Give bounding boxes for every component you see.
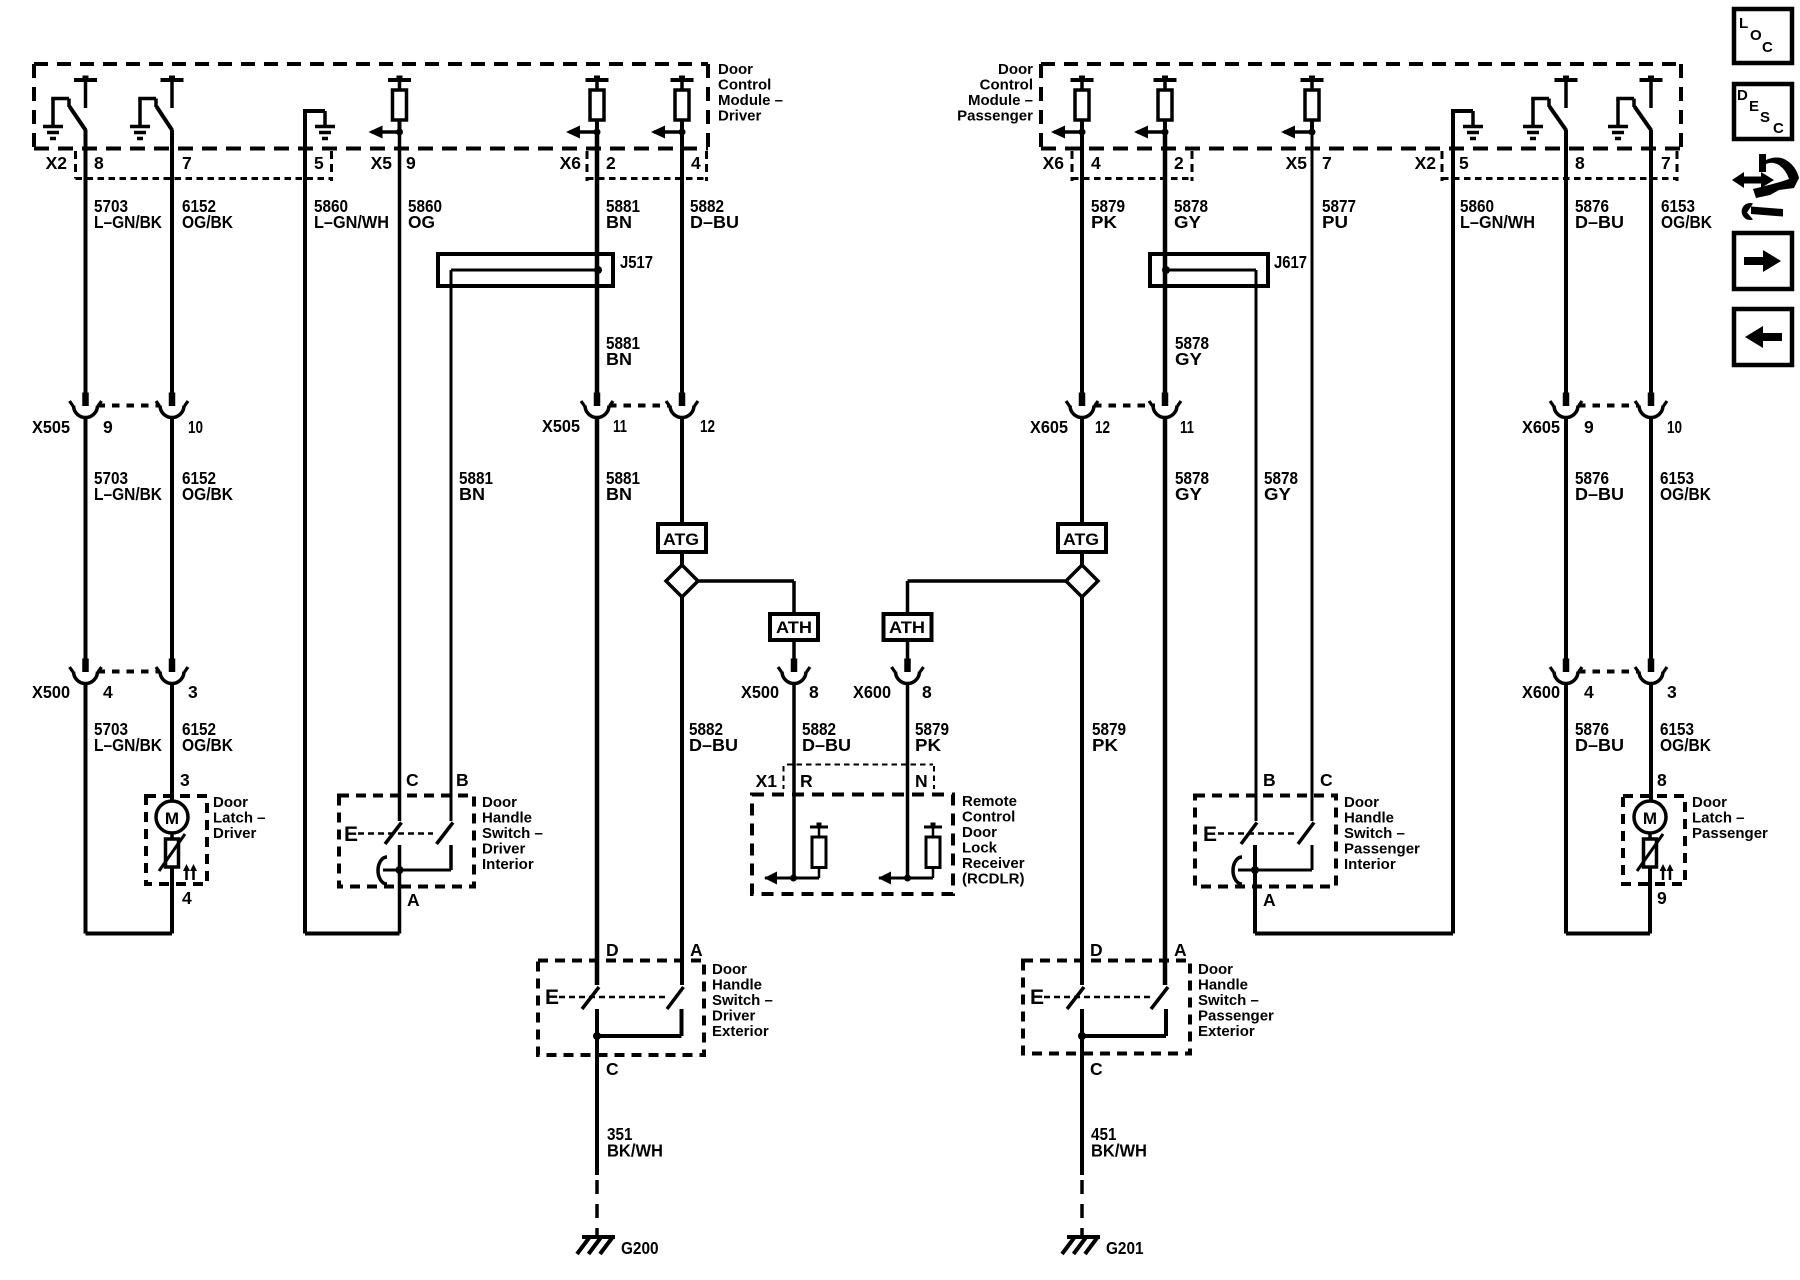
pin C label interior passenger (1320, 770, 1333, 790)
pin 8 label (94, 153, 104, 173)
pin 12 label X505 (700, 416, 715, 436)
svg-text:X6: X6 (1043, 153, 1065, 173)
splice symbol ATH (driver) (770, 614, 818, 640)
pin D label exterior passenger (1090, 940, 1103, 960)
ground symbol on wire X2-5 (passenger) (1451, 111, 1483, 149)
svg-text:9: 9 (1657, 888, 1667, 908)
box Door Handle Switch - Driver Exterior (538, 961, 704, 1056)
switch E actuator exterior passenger (1030, 986, 1150, 1009)
svg-text:8: 8 (94, 153, 104, 173)
switch blade D exterior driver (582, 987, 599, 1009)
svg-text:2: 2 (1174, 153, 1184, 173)
wire label 5876 D-BU top (1575, 196, 1624, 232)
svg-text:G200: G200 (621, 1238, 659, 1258)
svg-text:Receiver: Receiver (962, 855, 1025, 872)
svg-text:8: 8 (1657, 770, 1667, 790)
svg-text:3: 3 (188, 682, 198, 702)
svg-text:X605: X605 (1522, 417, 1560, 437)
wire label 5878 GY low (1175, 468, 1209, 504)
wire label 5881 BN low (606, 468, 640, 504)
pin 11 label X505 (613, 416, 627, 436)
svg-text:N: N (915, 771, 928, 791)
connector X605 row (passenger 12/11) (1094, 404, 1155, 408)
wire label 5860 L-GN/WH (passenger) (1460, 196, 1535, 232)
pin 9 label latch passenger (1657, 888, 1667, 908)
wire 351 BK/WH exterior driver C to ground (595, 1036, 599, 1235)
wire 5860 L-GN/WH (X2-5 to interior switch A) (305, 149, 400, 934)
pin label X1 (756, 771, 778, 791)
icon DESC box (1734, 84, 1792, 139)
switch to ground U2 pin X2-8 (1523, 76, 1578, 139)
connector X6 bracket (passenger) (1072, 151, 1192, 181)
svg-text:Door: Door (718, 61, 753, 78)
pin 7 label X5 (passenger) (1322, 153, 1332, 173)
svg-text:A: A (1263, 890, 1276, 910)
svg-text:ATG: ATG (1063, 530, 1099, 549)
svg-text:9: 9 (103, 417, 113, 437)
connector X1 row RCDLR (784, 765, 935, 790)
svg-text:Switch –: Switch – (1198, 992, 1259, 1009)
pin label X2 (driver) (46, 153, 68, 173)
svg-text:BN: BN (606, 349, 632, 369)
junction diamond (driver 5882) (666, 565, 698, 597)
label Door Latch - Passenger (1692, 794, 1768, 842)
wire interior driver A to 5860 (398, 845, 402, 934)
svg-text:BK/WH: BK/WH (607, 1141, 663, 1161)
wire label 6152 OG/BK top (182, 196, 233, 232)
svg-text:8: 8 (1575, 153, 1585, 173)
svg-text:Exterior: Exterior (712, 1023, 769, 1040)
svg-text:C: C (1090, 1059, 1103, 1079)
RCDLR input R internals (764, 823, 828, 885)
wire 451 BK/WH exterior passenger C to ground (1080, 1036, 1084, 1235)
pin 2 label (passenger) (1174, 153, 1184, 173)
label G201 (1106, 1238, 1144, 1258)
label X600 (right) (1522, 682, 1560, 702)
label J617 (1274, 252, 1307, 272)
wire label 6152 OG/BK low (182, 719, 233, 755)
splice symbol ATH (passenger side) (884, 614, 932, 640)
wire 5860 OG (X5-9 to interior switch C) (398, 132, 402, 821)
svg-text:4: 4 (182, 888, 192, 908)
wire label 6152 OG/BK mid (182, 468, 233, 504)
svg-text:L–GN/BK: L–GN/BK (94, 735, 162, 755)
label X500 (RCDLR R) (741, 682, 779, 702)
label X500 (left) (32, 682, 70, 702)
wire label 6153 OG/BK top (1661, 196, 1712, 232)
switch blade A exterior passenger (1151, 987, 1168, 1009)
pin 5 label (314, 153, 324, 173)
pin A label interior driver (407, 890, 420, 910)
svg-text:X5: X5 (371, 153, 393, 173)
svg-text:E: E (1203, 823, 1217, 846)
svg-text:X2: X2 (1415, 153, 1437, 173)
label Door Control Module - Driver (718, 61, 783, 125)
svg-text:11: 11 (613, 416, 627, 436)
wire label 5703 L-GN/BK mid (94, 468, 162, 504)
svg-text:4: 4 (1584, 682, 1594, 702)
box Door Handle Switch - Passenger Exterior (1023, 961, 1190, 1054)
svg-text:12: 12 (700, 416, 715, 436)
wire label 351 BK/WH (607, 1124, 663, 1161)
splice J617 (1150, 254, 1268, 286)
svg-text:2: 2 (606, 153, 616, 173)
svg-text:Driver: Driver (482, 841, 526, 858)
svg-text:PK: PK (915, 735, 941, 755)
wire label 5882 D-BU (to RCDLR) (802, 719, 851, 755)
resistor input U1 pin X6-4 (651, 76, 694, 139)
svg-text:Switch –: Switch – (712, 992, 773, 1009)
svg-text:Door: Door (482, 794, 517, 811)
pin A label exterior driver (690, 940, 703, 960)
ground G200 (577, 1237, 615, 1254)
svg-text:O: O (1750, 27, 1762, 44)
svg-text:Control: Control (718, 77, 771, 94)
svg-text:D: D (1090, 940, 1103, 960)
pin 7 label (182, 153, 192, 173)
wire label 6153 OG/BK low (1660, 719, 1711, 755)
pin 4 label X500 (103, 682, 113, 702)
svg-text:B: B (456, 770, 469, 790)
svg-text:Passenger: Passenger (957, 108, 1033, 125)
label X600 (RCDLR N) (853, 682, 891, 702)
pin 4 label (passenger) (1091, 153, 1101, 173)
svg-text:9: 9 (1584, 417, 1594, 437)
box Door Latch - Driver (146, 796, 207, 884)
wire 6153 OG/BK (X2-7 to door latch pin 8) (1635, 130, 1667, 802)
svg-text:ATH: ATH (776, 618, 812, 637)
box Remote Control Door Lock Receiver RCDLR (752, 795, 953, 895)
svg-text:Driver: Driver (712, 1008, 756, 1025)
svg-text:5: 5 (1459, 153, 1469, 173)
switch E actuator exterior driver (545, 986, 665, 1009)
pin 5 label (passenger) (1459, 153, 1469, 173)
svg-text:Module –: Module – (718, 92, 783, 109)
wire label 5879 PK low (1092, 719, 1126, 755)
label G200 (621, 1238, 659, 1258)
svg-text:(RCDLR): (RCDLR) (962, 871, 1024, 888)
svg-text:L–GN/WH: L–GN/WH (314, 212, 389, 232)
resistor input U2 pin X6-4 (1051, 76, 1094, 139)
switch to ground U1 pin X2-7 (130, 76, 184, 139)
icon arrow left box (1734, 309, 1792, 365)
wire label 5882 D-BU top (690, 196, 739, 232)
svg-text:C: C (606, 1059, 619, 1079)
connector X6 bracket (driver) (587, 151, 707, 181)
pin A label exterior passenger (1174, 940, 1187, 960)
svg-text:GY: GY (1174, 212, 1201, 232)
svg-text:OG/BK: OG/BK (1660, 484, 1711, 504)
svg-text:E: E (1030, 986, 1044, 1009)
wire diamond to ATH (driver) (698, 581, 794, 614)
svg-text:Handle: Handle (482, 810, 532, 827)
svg-text:Passenger: Passenger (1198, 1008, 1274, 1025)
icon hand with arrow and wrench (1732, 154, 1799, 220)
pin B label interior passenger (1263, 770, 1276, 790)
switch blade B interior driver (437, 823, 454, 845)
svg-text:Door: Door (1198, 961, 1233, 978)
pin N label (915, 771, 928, 791)
exterior passenger posts and junction (1078, 1009, 1166, 1040)
svg-text:BN: BN (606, 212, 632, 232)
wire label 5878 GY mid (1175, 333, 1209, 369)
svg-text:D–BU: D–BU (690, 212, 739, 232)
wire label 5881 BN top (606, 196, 640, 232)
wire label 5881 BN mid (606, 333, 640, 369)
svg-text:Interior: Interior (1344, 856, 1396, 873)
svg-text:PK: PK (1092, 735, 1118, 755)
pin B label interior driver (456, 770, 469, 790)
svg-text:Control: Control (980, 77, 1033, 94)
svg-text:C: C (406, 770, 419, 790)
pin 9 label X605 (1584, 417, 1594, 437)
wire label 5876 D-BU mid (1575, 468, 1624, 504)
svg-text:7: 7 (1322, 153, 1332, 173)
switch blade D exterior passenger (1067, 987, 1084, 1009)
svg-text:Door: Door (1692, 794, 1727, 811)
wire label 5878 GY branch (1264, 468, 1298, 504)
wire label 5879 PK top (1091, 196, 1125, 232)
label Door Latch - Driver (213, 794, 266, 842)
pin 9 label (406, 153, 416, 173)
svg-text:M: M (1643, 809, 1657, 828)
svg-text:C: C (1762, 39, 1773, 56)
svg-text:10: 10 (1667, 417, 1682, 437)
svg-text:Door: Door (962, 824, 997, 841)
svg-text:X505: X505 (32, 417, 70, 437)
wire label 451 BK/WH (1091, 1124, 1147, 1161)
switch blade C interior driver (385, 823, 402, 845)
svg-text:C: C (1320, 770, 1333, 790)
wire label 5881 BN branch (459, 468, 493, 504)
svg-text:A: A (407, 890, 420, 910)
wire 5878 GY (X6-2 to exterior switch A) (1149, 132, 1181, 985)
label Door Handle Switch - Passenger Exterior (1198, 961, 1274, 1040)
pin label X5 (passenger) (1286, 153, 1308, 173)
svg-text:D–BU: D–BU (1575, 484, 1624, 504)
pin 10 label X505 (188, 417, 203, 437)
svg-text:Latch –: Latch – (213, 810, 266, 827)
module box Door Control Module - Driver (34, 64, 708, 149)
svg-text:J517: J517 (620, 252, 653, 272)
svg-text:A: A (1174, 940, 1187, 960)
svg-text:X6: X6 (560, 153, 582, 173)
box Door Latch - Passenger (1623, 796, 1685, 884)
svg-text:Latch –: Latch – (1692, 810, 1745, 827)
switch blade A exterior driver (667, 987, 684, 1009)
wire label 5876 D-BU low (1575, 719, 1624, 755)
label X505 (center) (542, 416, 580, 436)
svg-text:R: R (800, 771, 813, 791)
pin R label (800, 771, 813, 791)
svg-text:12: 12 (1095, 417, 1110, 437)
wire label 5877 PU (1322, 196, 1356, 232)
switch E actuator interior passenger (1203, 823, 1294, 846)
wire 5860 L-GN/WH (X2-5 to interior switch A passenger) (1255, 149, 1453, 934)
svg-text:X5: X5 (1286, 153, 1308, 173)
svg-text:Handle: Handle (712, 977, 762, 994)
svg-text:3: 3 (1667, 682, 1677, 702)
pin 3 label X600 (1667, 682, 1677, 702)
wire label 5703 L-GN/BK top (94, 196, 162, 232)
svg-text:4: 4 (103, 682, 113, 702)
svg-text:7: 7 (1661, 153, 1671, 173)
thermistor door latch passenger (1637, 833, 1663, 871)
svg-text:D–BU: D–BU (802, 735, 851, 755)
svg-text:Handle: Handle (1344, 810, 1394, 827)
icon LOC box (1734, 9, 1792, 63)
svg-text:Control: Control (962, 809, 1015, 826)
svg-text:Lock: Lock (962, 840, 998, 857)
svg-text:GY: GY (1264, 484, 1291, 504)
svg-text:OG/BK: OG/BK (182, 212, 233, 232)
svg-text:OG: OG (408, 212, 435, 232)
icon arrow right box (1734, 233, 1792, 289)
motor M door latch driver (156, 801, 188, 833)
module box Door Control Module - Passenger (1041, 64, 1681, 149)
pin D label exterior driver (606, 940, 619, 960)
svg-text:5: 5 (314, 153, 324, 173)
connector X500 row (driver 4/3) (98, 670, 161, 674)
svg-text:D: D (606, 940, 619, 960)
thermistor door latch driver (159, 833, 185, 871)
pin label X2 (passenger) (1415, 153, 1437, 173)
svg-text:L: L (1739, 15, 1748, 32)
svg-text:D: D (1737, 87, 1748, 104)
svg-text:GY: GY (1175, 349, 1202, 369)
wire label 5882 D-BU low (689, 719, 738, 755)
connector X2 bracket (passenger) (1442, 151, 1677, 181)
svg-text:PK: PK (1091, 212, 1117, 232)
resistor input U1 pin X6-2 (566, 76, 609, 139)
pin C label interior driver (406, 770, 419, 790)
wire 5878 GY branch (J617 to interior switch B) (1255, 270, 1258, 821)
wire ATH to diamond (passenger) (908, 579, 1067, 583)
wire 5879 PK (X6-4 through ATG to exterior switch D) (1066, 132, 1098, 985)
svg-text:9: 9 (406, 153, 416, 173)
connector X600 row (passenger 4/3) (1578, 670, 1639, 674)
wire label 6153 OG/BK mid (1660, 468, 1711, 504)
svg-text:Switch –: Switch – (1344, 825, 1405, 842)
svg-text:X600: X600 (1522, 682, 1560, 702)
svg-text:OG/BK: OG/BK (182, 735, 233, 755)
svg-text:Remote: Remote (962, 793, 1017, 810)
svg-text:3: 3 (180, 770, 190, 790)
arrows thermal latch driver (183, 864, 197, 880)
svg-text:L–GN/BK: L–GN/BK (94, 484, 162, 504)
svg-text:Door: Door (1344, 794, 1379, 811)
svg-text:X500: X500 (32, 682, 70, 702)
splice J517 (438, 254, 613, 286)
wire label 5878 GY top (1174, 196, 1208, 232)
svg-text:M: M (165, 809, 179, 828)
pin C label exterior passenger (1090, 1059, 1103, 1079)
svg-text:Exterior: Exterior (1198, 1023, 1255, 1040)
svg-text:L–GN/BK: L–GN/BK (94, 212, 162, 232)
svg-text:Module –: Module – (968, 92, 1033, 109)
svg-text:OG/BK: OG/BK (1661, 212, 1712, 232)
svg-text:X500: X500 (741, 682, 779, 702)
exterior driver posts and junction (593, 1009, 682, 1040)
svg-text:D–BU: D–BU (1575, 212, 1624, 232)
svg-text:X605: X605 (1030, 417, 1068, 437)
interior driver posts and junction (378, 845, 451, 884)
pin C label exterior driver (606, 1059, 619, 1079)
switch blade B interior passenger (1241, 823, 1257, 845)
svg-text:OG/BK: OG/BK (182, 484, 233, 504)
svg-text:C: C (1773, 120, 1784, 137)
pin 8 label X500-8 (809, 682, 819, 702)
pin 2 label (606, 153, 616, 173)
svg-text:X2: X2 (46, 153, 68, 173)
pin 9 label X505 (103, 417, 113, 437)
svg-text:J617: J617 (1274, 252, 1307, 272)
svg-text:E: E (1749, 98, 1759, 115)
svg-text:BK/WH: BK/WH (1091, 1141, 1147, 1161)
wire label 5879 PK (to RCDLR) (915, 719, 949, 755)
connector X605 row (passenger 9/10) (1578, 404, 1639, 408)
connector X505 row (driver 11/12) (609, 404, 670, 408)
label X505 (left) (32, 417, 70, 437)
pin 10 label X605 (1667, 417, 1682, 437)
svg-text:10: 10 (188, 417, 203, 437)
svg-text:Handle: Handle (1198, 977, 1248, 994)
wire 5876 D-BU (X2-8 to door latch passenger) (1550, 130, 1650, 934)
svg-text:Switch –: Switch – (482, 825, 543, 842)
box Door Handle Switch - Passenger Interior (1195, 796, 1336, 887)
label Door Handle Switch - Driver Exterior (712, 961, 773, 1040)
svg-text:E: E (545, 986, 559, 1009)
pin 4 label (691, 153, 701, 173)
svg-text:OG/BK: OG/BK (1660, 735, 1711, 755)
RCDLR input N internals (878, 823, 942, 885)
wire 5881 BN branch (J517 to interior switch B) (450, 270, 453, 821)
resistor input U2 pin X6-2 (1134, 76, 1177, 139)
pin label X6 (driver) (560, 153, 582, 173)
pin 11 label X605 (1180, 417, 1194, 437)
pin 8 label X600-8 (922, 682, 932, 702)
wire latch passenger pin9 to junction (1648, 867, 1652, 934)
wire latch driver pin4 to junction (170, 867, 174, 934)
label X605 (right) (1522, 417, 1560, 437)
wire 5881 BN (X6-2 to exterior switch D) (581, 132, 613, 985)
svg-text:L–GN/WH: L–GN/WH (1460, 212, 1535, 232)
svg-text:X505: X505 (542, 416, 580, 436)
svg-text:GY: GY (1175, 484, 1202, 504)
svg-text:ATH: ATH (889, 618, 925, 637)
label J517 (620, 252, 653, 272)
resistor input U2 pin X5-7 (1281, 76, 1324, 139)
box Door Handle Switch - Driver Interior (339, 796, 474, 887)
pin 3 label X500 (188, 682, 198, 702)
motor M door latch passenger (1634, 801, 1666, 833)
label X605 (center) (1030, 417, 1068, 437)
svg-text:E: E (344, 823, 358, 846)
wire label 5703 L-GN/BK low (94, 719, 162, 755)
svg-text:7: 7 (182, 153, 192, 173)
ground G201 (1062, 1237, 1100, 1254)
svg-text:Door: Door (213, 794, 248, 811)
svg-text:4: 4 (691, 153, 701, 173)
svg-text:8: 8 (922, 682, 932, 702)
svg-text:PU: PU (1322, 212, 1348, 232)
connector X2 bracket (driver) (76, 151, 332, 181)
svg-text:4: 4 (1091, 153, 1101, 173)
label Door Handle Switch - Passenger Interior (1344, 794, 1420, 873)
wire 5879 PK (ATH to RCDLR N) (892, 581, 924, 878)
svg-text:11: 11 (1180, 417, 1194, 437)
svg-text:BN: BN (606, 484, 632, 504)
